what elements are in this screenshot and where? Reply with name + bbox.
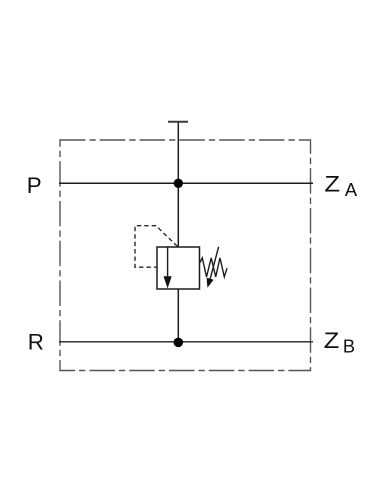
wire: port P line xyxy=(59,182,313,184)
svg-text:Z: Z xyxy=(324,172,340,197)
svg-text:P: P xyxy=(27,173,42,198)
wire: port R line xyxy=(59,341,313,343)
spring adjustment arrow xyxy=(207,247,219,288)
pilot line (dashed) xyxy=(135,226,177,268)
wire: vertical line lower (valve to R line) xyxy=(177,289,179,342)
enclosure border (dash-dot frame) xyxy=(60,140,311,371)
plugged port T-bar xyxy=(168,121,188,123)
svg-text:Z: Z xyxy=(324,328,340,353)
valve V1 body xyxy=(157,247,200,289)
svg-text:B: B xyxy=(343,336,355,357)
node: junction dot on P line xyxy=(174,179,183,188)
wire: vertical line upper (plug to valve) xyxy=(177,122,179,248)
svg-text:R: R xyxy=(28,330,44,355)
svg-text:A: A xyxy=(345,179,358,200)
spring xyxy=(200,258,227,277)
node: junction dot on R line xyxy=(174,338,184,348)
valve V1 flow path arrow xyxy=(164,248,172,289)
